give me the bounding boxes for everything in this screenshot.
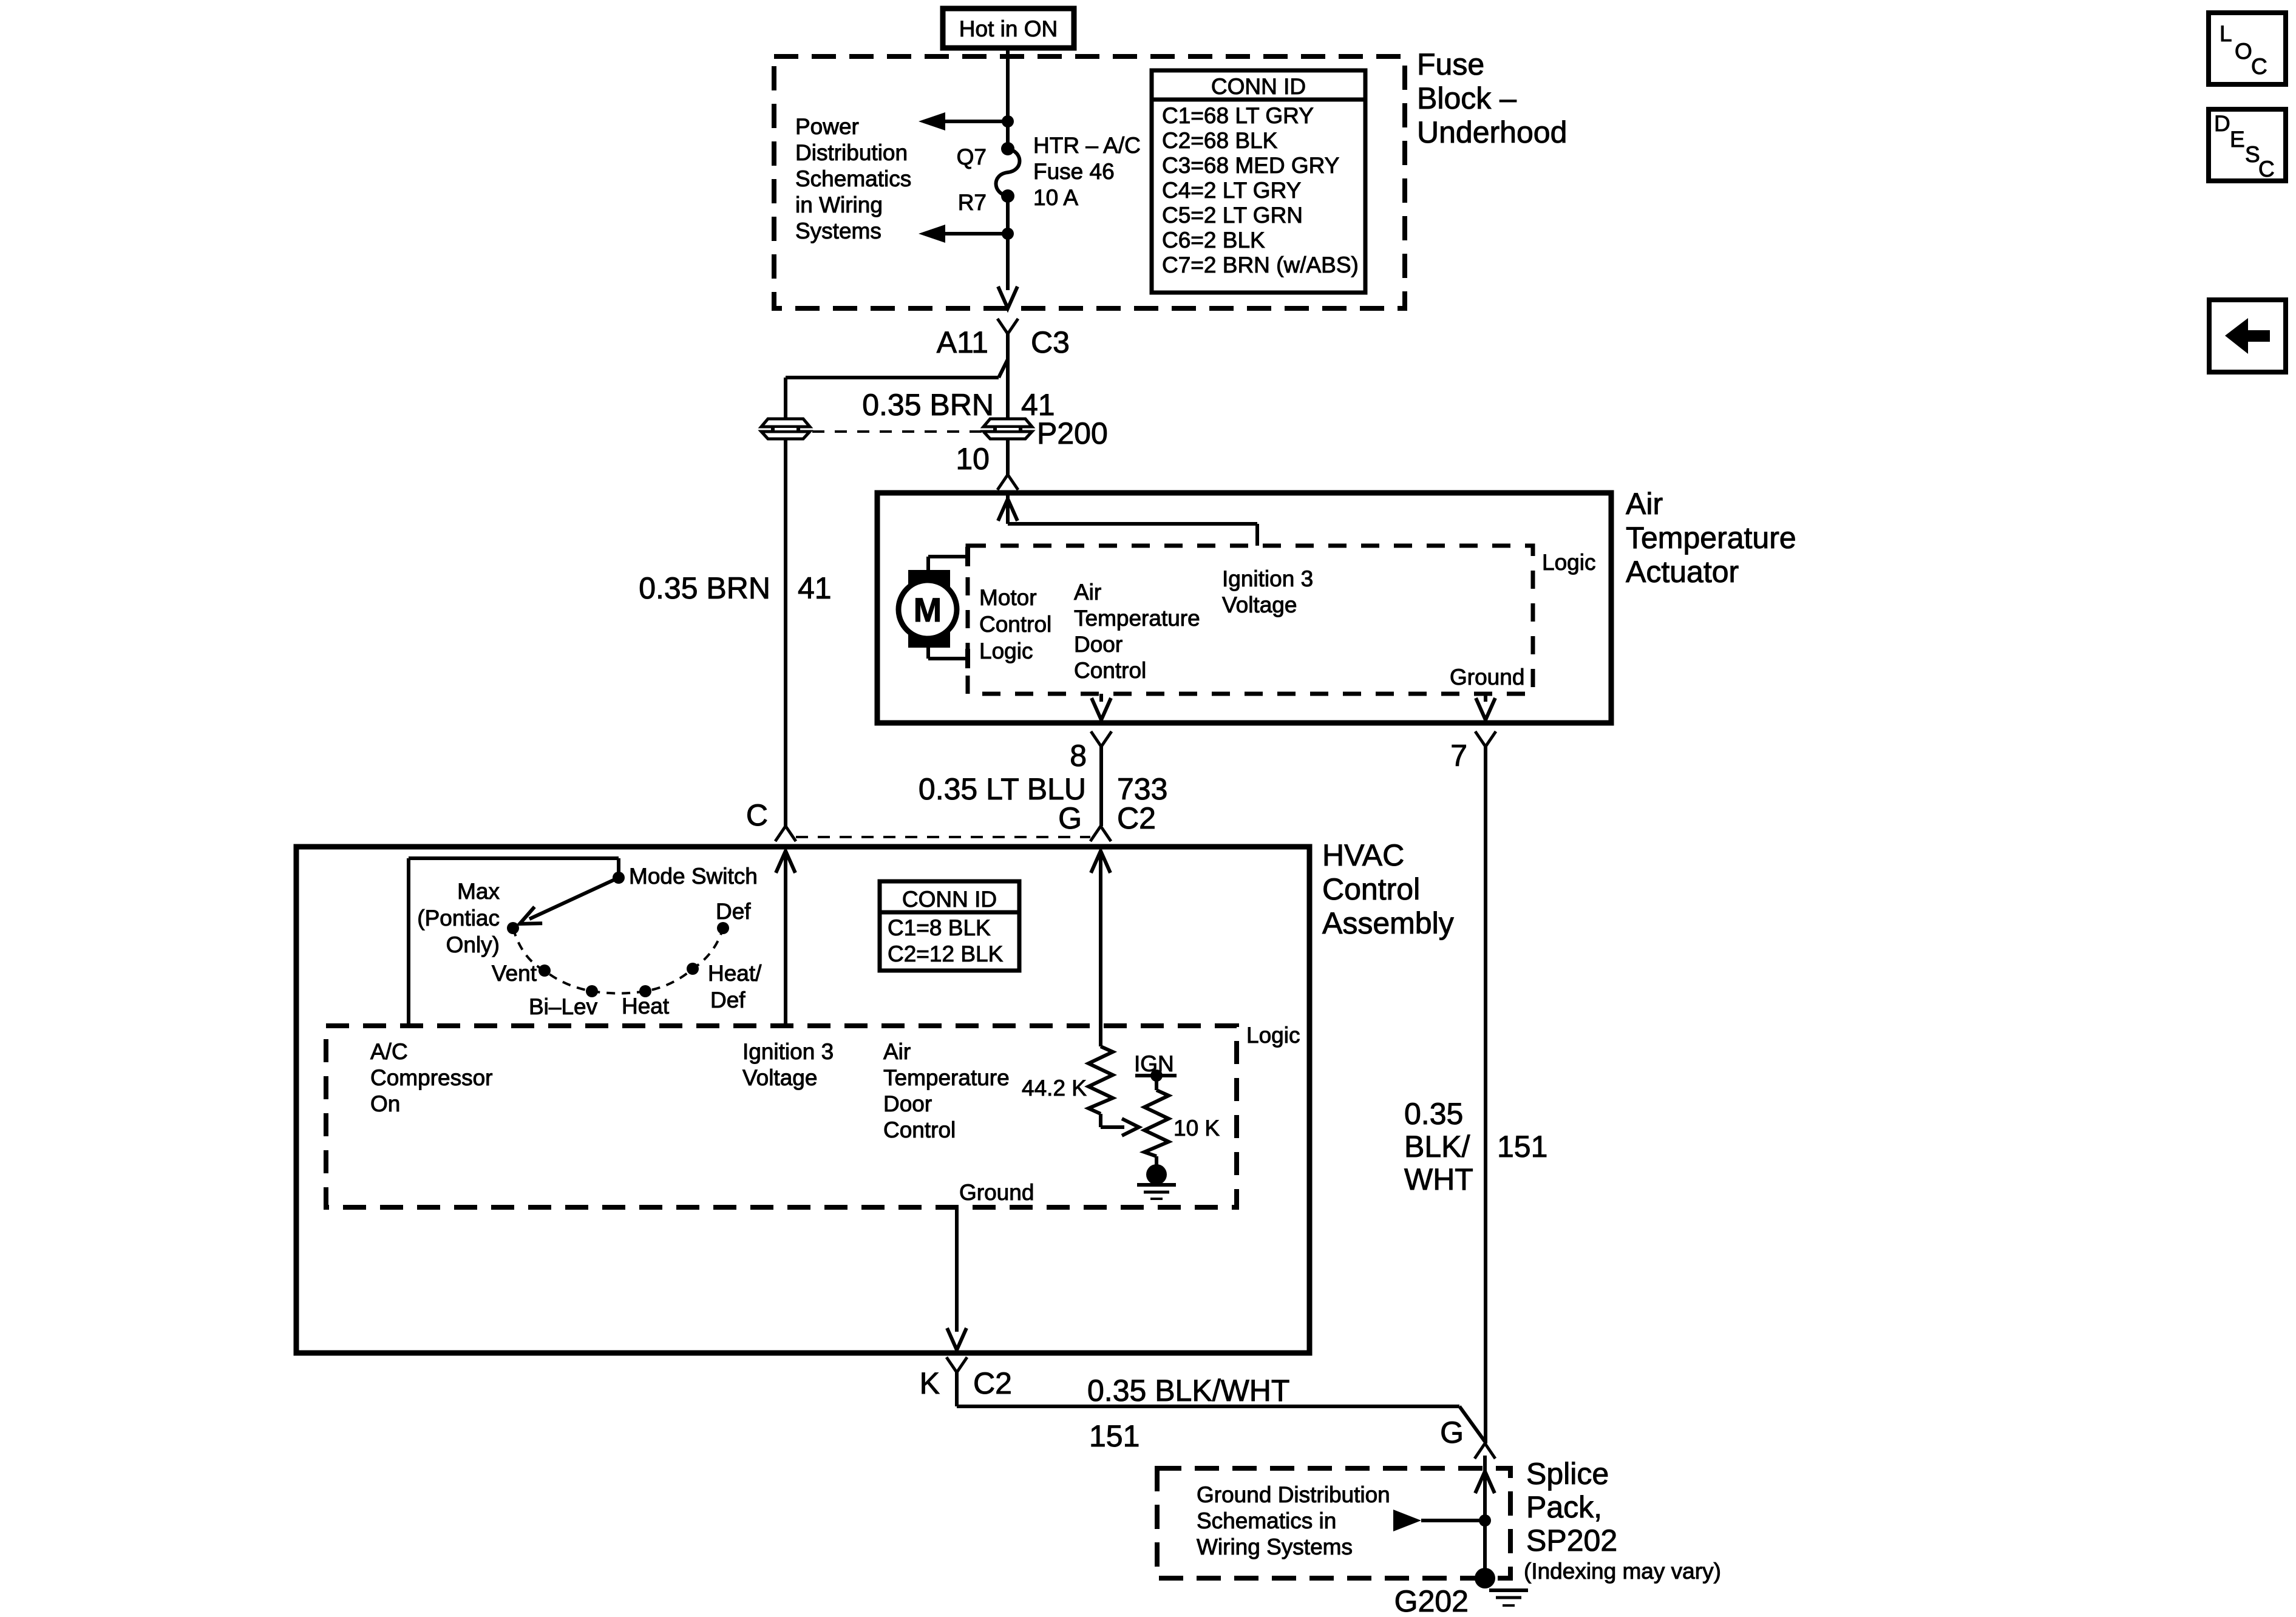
ground G202 node dot [1475,1568,1495,1588]
svg-text:Logic: Logic [1246,1023,1300,1048]
actuator output wire pin 8 with down arrow [1092,694,1111,720]
wire down to fuse block edge with arrow [998,234,1017,308]
svg-text:Def: Def [710,988,746,1012]
svg-text:151: 151 [1089,1419,1140,1453]
mode switch common node [613,872,625,884]
value label 44.2 K [1022,1076,1087,1100]
svg-text:Voltage: Voltage [742,1065,817,1090]
HVAC logic dashed box [326,1026,1237,1207]
label Logic (HVAC) [1246,1023,1300,1048]
svg-text:44.2 K: 44.2 K [1022,1076,1087,1100]
svg-text:Hot in ON: Hot in ON [959,16,1058,41]
circuit number 151 (bottom) [1089,1419,1140,1453]
svg-text:K: K [920,1366,940,1400]
svg-text:CONN ID: CONN ID [902,887,997,912]
svg-text:Max: Max [457,879,500,904]
pin label C2 (K) [973,1366,1012,1400]
arrow to power distribution schematics (bottom) [919,225,1008,243]
label Heat/Def [708,961,762,1012]
fuse HTR - A/C Fuse 46 10 A [996,142,1020,203]
svg-text:Underhood: Underhood [1417,115,1567,149]
svg-text:Temperature: Temperature [883,1065,1010,1090]
svg-text:Ground: Ground [959,1180,1034,1205]
wire 733 to HVAC pin G [1099,747,1103,826]
label Ground (actuator) [1450,665,1524,690]
connector tie dashed line C to G [796,836,1090,838]
svg-text:G202: G202 [1394,1584,1469,1617]
mode switch feed wire [409,858,619,1026]
mode switch position Heat/Def [687,963,699,975]
svg-text:Door: Door [1074,632,1123,657]
label Indexing may vary [1524,1559,1721,1584]
svg-text:BLK/: BLK/ [1404,1130,1470,1164]
pin label C [746,798,768,832]
pin label G (splice) [1440,1415,1464,1449]
connector fork pin G [1090,826,1111,841]
mode switch position Vent [538,964,551,977]
svg-text:8: 8 [1070,739,1087,773]
svg-text:C7=2 BRN (w/ABS): C7=2 BRN (w/ABS) [1162,253,1359,277]
svg-text:7: 7 [1450,739,1467,773]
wire label 0.35 BLK/WHT (bottom) [1087,1374,1289,1408]
svg-text:Heat: Heat [622,994,670,1019]
connector fork pin 7 [1475,731,1496,747]
svg-text:C: C [2251,54,2267,79]
mode switch position Max [507,922,519,934]
svg-text:151: 151 [1497,1130,1547,1164]
svg-text:P200: P200 [1037,416,1108,450]
mode switch position Heat [639,985,651,997]
svg-text:Ground: Ground [1450,665,1524,690]
svg-text:WHT: WHT [1404,1162,1473,1196]
wire 41 below P200 [1006,439,1010,475]
HVAC Control Assembly box [296,847,1309,1353]
motor wire bottom with terminal [928,648,968,668]
svg-text:Def: Def [716,899,751,924]
svg-text:(Indexing may vary): (Indexing may vary) [1524,1559,1721,1584]
wire label 0.35 BLK/WHT (right) [1404,1097,1473,1196]
circuit number 151 (right) [1497,1130,1547,1164]
mode switch wiper arrow [520,878,619,924]
svg-text:Splice: Splice [1526,1457,1609,1491]
svg-text:Temperature: Temperature [1074,606,1200,631]
svg-text:S: S [2245,142,2260,167]
grommet connector (left, P200) [761,419,810,439]
pin Q7 label [957,144,987,169]
svg-text:C: C [2258,157,2275,181]
wire label 0.35 BRN (left) [639,571,770,605]
svg-text:C3=68 MED GRY: C3=68 MED GRY [1162,153,1339,178]
label Ground Distribution Schematics in Wiring Systems [1197,1482,1390,1559]
label Splice Pack SP202 [1526,1457,1617,1558]
actuator ground wire pin 7 with down arrow [1476,694,1495,720]
label IGN [1134,1051,1174,1076]
resistor 10 K [1144,1090,1169,1156]
label Heat [622,994,670,1019]
svg-text:Ignition 3: Ignition 3 [1222,566,1313,591]
label Def [716,899,751,924]
wire 10K to internal ground [1155,1156,1158,1167]
svg-text:Pack,: Pack, [1526,1490,1602,1524]
svg-text:C4=2 LT GRY: C4=2 LT GRY [1162,178,1301,203]
pin label A11 [937,325,988,359]
svg-text:Ground Distribution: Ground Distribution [1197,1482,1390,1507]
svg-text:Actuator: Actuator [1626,555,1739,589]
IGN supply bar [1135,1070,1177,1090]
svg-text:in Wiring: in Wiring [795,192,883,217]
label Air Temperature Door Control (actuator) [1074,580,1200,683]
svg-text:Schematics in: Schematics in [1197,1508,1336,1533]
svg-text:Heat/: Heat/ [708,961,762,986]
splice wire with up arrow [1475,1456,1495,1578]
svg-text:Air: Air [883,1039,911,1064]
svg-text:Control: Control [979,612,1051,637]
circuit number 41 (main) [1021,388,1055,422]
svg-text:Air: Air [1626,487,1663,521]
junction dot at power distribution tap (top) [1002,115,1014,127]
svg-text:Motor: Motor [979,585,1037,610]
CONN ID table (fuse block) [1152,70,1365,293]
svg-text:HTR – A/C: HTR – A/C [1033,133,1141,158]
svg-text:41: 41 [798,571,832,605]
svg-text:10 K: 10 K [1173,1116,1220,1141]
splice pack dashed box [1157,1468,1510,1578]
svg-text:R7: R7 [958,190,987,215]
ground symbol G202 [1489,1590,1528,1605]
svg-text:0.35: 0.35 [1404,1097,1463,1131]
svg-text:C2: C2 [973,1366,1012,1400]
svg-text:Logic: Logic [1542,550,1595,575]
svg-text:Bi–Lev: Bi–Lev [529,994,598,1019]
svg-text:Fuse 46: Fuse 46 [1033,159,1115,184]
svg-text:Ignition 3: Ignition 3 [742,1039,834,1064]
connector fork pin 8 [1091,731,1112,747]
svg-text:Voltage: Voltage [1222,592,1297,617]
svg-text:0.35 BRN: 0.35 BRN [862,388,994,422]
svg-text:C2=68 BLK: C2=68 BLK [1162,128,1278,153]
svg-text:Control: Control [883,1117,956,1142]
grommet connector P200 (main) [983,419,1032,439]
internal ground symbol [1137,1185,1176,1199]
svg-text:Mode Switch: Mode Switch [629,864,758,889]
potentiometer wiper arrow [1101,1114,1139,1136]
mode switch position Bi-Lev [586,985,598,997]
actuator logic dashed box [968,546,1533,694]
svg-text:C1=68 LT GRY: C1=68 LT GRY [1162,103,1314,128]
back arrow icon box [2209,300,2286,372]
svg-text:Air: Air [1074,580,1101,605]
svg-text:G: G [1440,1415,1464,1449]
svg-text:C1=8 BLK: C1=8 BLK [888,915,991,940]
svg-text:CONN ID: CONN ID [1211,74,1306,99]
svg-text:Wiring Systems: Wiring Systems [1197,1534,1353,1559]
pin label 10 [956,442,990,476]
svg-text:Power: Power [795,114,859,139]
svg-text:D: D [2214,111,2230,136]
fuse value label HTR - A/C Fuse 46 10 A [1033,133,1141,210]
junction dot at power distribution tap (bottom) [1002,228,1014,240]
branch diagonal to left wire 41 [999,359,1008,378]
value label 10 K [1173,1116,1220,1141]
label Ground (HVAC) [959,1180,1034,1205]
power tag "Hot in ON" [943,8,1074,48]
svg-text:Q7: Q7 [957,144,987,169]
arrow to power distribution schematics (top) [919,112,1008,131]
label Max (Pontiac Only) [417,879,500,957]
svg-text:E: E [2230,127,2245,152]
label Air Temperature Door Control (HVAC) [883,1039,1010,1142]
svg-text:Control: Control [1074,658,1146,683]
pin label 7 [1450,739,1467,773]
svg-text:Assembly: Assembly [1322,906,1454,940]
svg-text:Control: Control [1322,872,1420,906]
label Ignition 3 Voltage (HVAC) [742,1039,834,1090]
svg-text:10 A: 10 A [1033,185,1078,210]
svg-text:C5=2 LT GRN: C5=2 LT GRN [1162,203,1303,228]
pin label 8 [1070,739,1087,773]
wire fuse to lower tap [1006,196,1010,234]
pin label G [1058,801,1082,835]
connector fork splice G [1475,1443,1495,1459]
pin label K [920,1366,940,1400]
svg-text:SP202: SP202 [1526,1524,1617,1558]
label Ignition 3 Voltage (actuator) [1222,566,1313,617]
svg-text:On: On [370,1091,400,1116]
connector fork A11/C3 [997,319,1018,334]
svg-text:C2=12 BLK: C2=12 BLK [888,941,1004,966]
label G202 [1394,1584,1469,1617]
DESC icon box [2209,109,2286,181]
fuse block dashed box (Fuse Block - Underhood) [774,56,1405,308]
svg-text:Distribution: Distribution [795,140,908,165]
label Fuse Block - Underhood [1417,47,1567,149]
svg-text:Logic: Logic [979,639,1033,663]
svg-text:O: O [2235,39,2252,64]
connector fork pin C [775,826,796,841]
label Bi-Lev [529,994,598,1019]
mode switch position Def [717,922,729,934]
svg-text:Block –: Block – [1417,81,1517,115]
svg-text:C: C [746,798,768,832]
wire 151 from pin K [957,1372,1485,1442]
svg-text:A/C: A/C [370,1039,408,1064]
entry wire pin 10 with up arrow [998,495,1257,546]
wire 151 from pin 7 down to splice [1484,747,1487,1443]
label Power Distribution Schematics in Wiring Systems [795,114,911,243]
wire from Hot in ON into fuse block [1006,48,1010,149]
svg-text:G: G [1058,801,1082,835]
wire 41 branch horizontal [786,376,999,379]
wire 41 left run down to HVAC pin C [784,439,787,826]
mode switch position arc [513,928,723,994]
svg-text:Only): Only) [446,932,500,957]
ground distribution feed arrow [1393,1510,1485,1531]
connector fork pin K [946,1357,967,1372]
connector fork pin 10 [997,475,1018,490]
svg-text:C3: C3 [1031,325,1070,359]
motor M1 [898,570,957,648]
label Mode Switch [629,864,758,889]
P200 tie dashed line [812,430,982,433]
circuit number 733 [1117,772,1167,806]
svg-text:Schematics: Schematics [795,166,911,191]
pin label C2 (G) [1117,801,1156,835]
circuit number 41 (left) [798,571,832,605]
svg-text:C2: C2 [1117,801,1156,835]
svg-text:Temperature: Temperature [1626,521,1796,555]
label Vent [492,961,537,986]
internal ground node dot [1146,1164,1167,1185]
pin R7 label [958,190,987,215]
svg-text:Fuse: Fuse [1417,47,1484,81]
label P200 [1037,416,1108,450]
label Logic (actuator) [1542,550,1595,575]
resistor 44.2 K [1089,1046,1113,1114]
pin label C3 [1031,325,1070,359]
svg-text:0.35 BLK/WHT: 0.35 BLK/WHT [1087,1374,1289,1408]
svg-text:Door: Door [883,1091,932,1116]
wire label 0.35 LT BLU [919,772,1086,806]
motor wire top with terminal [928,547,968,570]
svg-text:A11: A11 [937,325,988,359]
svg-text:(Pontiac: (Pontiac [417,906,500,931]
label HVAC Control Assembly [1322,838,1454,940]
svg-text:Vent: Vent [492,961,537,986]
HVAC pin G entry arrow and wire [1091,851,1110,1046]
svg-text:M: M [914,591,942,629]
Air Temperature Actuator box [877,493,1611,723]
HVAC ground wire with down arrow [947,1207,966,1350]
LOC icon box [2209,13,2286,84]
splice junction dot [1479,1514,1491,1527]
label Air Temperature Actuator [1626,487,1796,589]
wire 41 from C3 down to P200 [1006,334,1010,419]
svg-text:Systems: Systems [795,219,881,243]
CONN ID table (HVAC) [880,881,1019,971]
svg-text:0.35 BRN: 0.35 BRN [639,571,770,605]
wire label 0.35 BRN (main) [862,388,994,422]
HVAC pin C entry arrow and wire [776,851,795,1026]
svg-text:Compressor: Compressor [370,1065,493,1090]
svg-text:HVAC: HVAC [1322,838,1404,872]
label A/C Compressor On [370,1039,493,1116]
wire 41 left drop to grommet [784,378,787,419]
label Motor Control Logic [979,585,1051,663]
svg-text:C6=2 BLK: C6=2 BLK [1162,228,1265,253]
svg-text:L: L [2220,21,2232,46]
svg-text:10: 10 [956,442,990,476]
